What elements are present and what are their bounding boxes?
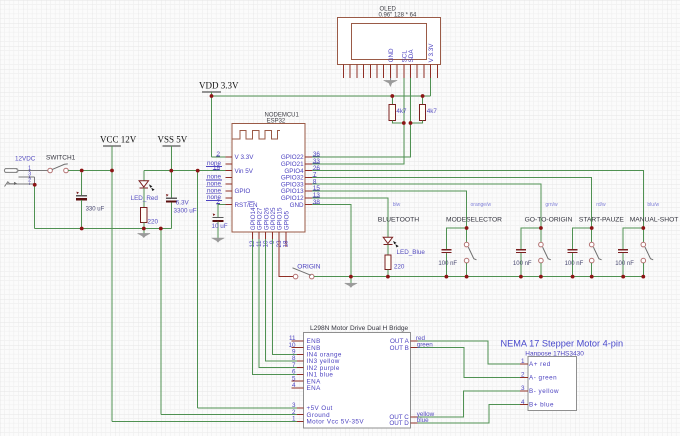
svg-text:SWITCH1: SWITCH1 (46, 155, 76, 162)
svg-text:4: 4 (292, 382, 296, 389)
svg-text:Vin 5V: Vin 5V (235, 168, 254, 175)
svg-text:OUT D: OUT D (389, 420, 409, 427)
svg-text:4: 4 (521, 399, 525, 406)
svg-text:START-PAUZE: START-PAUZE (579, 217, 624, 224)
svg-text:LED_Red: LED_Red (131, 195, 159, 202)
svg-text:ENA: ENA (307, 385, 322, 392)
svg-text:B+ blue: B+ blue (529, 402, 554, 409)
svg-text:18: 18 (283, 240, 290, 248)
svg-text:100 nF: 100 nF (438, 261, 457, 267)
svg-text:GND: GND (290, 202, 304, 209)
svg-text:GPIO: GPIO (235, 188, 251, 195)
svg-text:MODESELECTOR: MODESELECTOR (446, 217, 502, 224)
svg-text:12VDC: 12VDC (15, 156, 36, 163)
svg-text:220: 220 (148, 218, 159, 225)
svg-text:A+ red: A+ red (529, 361, 551, 368)
svg-text:VCC 12V: VCC 12V (100, 135, 137, 145)
svg-text:4k7: 4k7 (427, 108, 438, 115)
svg-text:VDD 3.3V: VDD 3.3V (199, 81, 239, 91)
svg-text:LED_Blue: LED_Blue (397, 249, 426, 256)
svg-text:MANUAL-SHOT: MANUAL-SHOT (630, 217, 679, 224)
svg-text:1: 1 (521, 358, 525, 365)
svg-text:100 nF: 100 nF (513, 261, 532, 267)
svg-text:GND: GND (388, 48, 395, 62)
svg-text:220: 220 (394, 263, 405, 270)
svg-text:100 nF: 100 nF (565, 261, 584, 267)
svg-text:330 uF: 330 uF (86, 207, 105, 213)
svg-text:GPIO5: GPIO5 (283, 210, 290, 230)
svg-text:B- yellow: B- yellow (529, 388, 559, 395)
svg-text:3: 3 (521, 385, 525, 392)
svg-text:SDA: SDA (408, 49, 415, 63)
svg-text:VSS 5V: VSS 5V (158, 135, 188, 145)
svg-text:blu/w: blu/w (647, 202, 659, 208)
svg-text:OUT B: OUT B (390, 345, 409, 352)
svg-text:4k7: 4k7 (396, 108, 407, 115)
svg-text:grn/w: grn/w (545, 202, 558, 208)
svg-text:V 3.3V: V 3.3V (428, 43, 435, 63)
svg-text:L298N Motor Drive Dual H Bridg: L298N Motor Drive Dual H Bridge (310, 325, 409, 332)
svg-text:GO-TO-ORIGIN: GO-TO-ORIGIN (525, 217, 573, 224)
svg-text:NODEMCU1: NODEMCU1 (265, 112, 300, 118)
svg-text:0.96" 128 * 64: 0.96" 128 * 64 (379, 12, 417, 18)
svg-text:2: 2 (521, 372, 525, 379)
svg-text:Motor Vcc 5V-35V: Motor Vcc 5V-35V (307, 419, 365, 426)
svg-text:NEMA 17 Stepper Motor 4-pin: NEMA 17 Stepper Motor 4-pin (501, 339, 624, 349)
svg-text:blw: blw (393, 202, 401, 208)
svg-text:rd/w: rd/w (596, 202, 606, 208)
svg-text:blue: blue (417, 417, 429, 424)
svg-text:A- green: A- green (529, 374, 557, 381)
svg-text:3300 uF: 3300 uF (174, 208, 197, 215)
svg-text:10 uF: 10 uF (212, 223, 228, 230)
svg-text:V 3.3V: V 3.3V (235, 154, 255, 161)
svg-text:1: 1 (292, 416, 296, 423)
svg-text:ORIGIN: ORIGIN (297, 264, 320, 271)
svg-text:ESP32: ESP32 (267, 119, 286, 125)
svg-text:BLUETOOTH: BLUETOOTH (378, 217, 420, 224)
svg-text:orange/w: orange/w (471, 202, 492, 208)
svg-text:6.3V: 6.3V (176, 200, 190, 207)
svg-text:100 nF: 100 nF (615, 261, 634, 267)
svg-text:green: green (417, 342, 434, 349)
